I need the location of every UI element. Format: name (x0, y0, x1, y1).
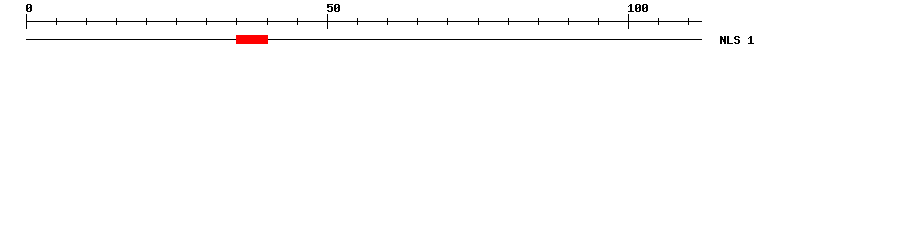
ruler minor tick at 95 (598, 18, 599, 25)
ruler minor tick at 25 (176, 18, 177, 25)
ruler minor tick at 35 (236, 18, 237, 25)
ruler minor tick at 65 (417, 18, 418, 25)
ruler minor tick at 105 (658, 18, 659, 25)
ruler major tick at 50 (327, 14, 328, 29)
ruler minor tick at 45 (297, 18, 298, 25)
ruler minor tick at 80 (508, 18, 509, 25)
sequence line (26, 39, 702, 40)
ruler minor tick at 30 (206, 18, 207, 25)
ruler label 50 (327, 4, 340, 12)
ruler minor tick at 85 (538, 18, 539, 25)
ruler minor tick at 40 (267, 18, 268, 25)
ruler minor tick at 110 (688, 18, 689, 25)
ruler minor tick at 20 (146, 18, 147, 25)
ruler minor tick at 90 (568, 18, 569, 25)
ruler minor tick at 55 (357, 18, 358, 25)
ruler major tick at 0 (26, 14, 27, 29)
ruler minor tick at 70 (447, 18, 448, 25)
ruler minor tick at 60 (387, 18, 388, 25)
ruler minor tick at 5 (56, 18, 57, 25)
ruler axis line (26, 21, 702, 22)
ruler minor tick at 10 (86, 18, 87, 25)
ruler label 100 (628, 4, 648, 12)
ruler label 0 (26, 4, 32, 12)
feature label NLS 1 (720, 36, 754, 44)
ruler minor tick at 15 (116, 18, 117, 25)
feature box NLS 1 (red) (236, 35, 268, 44)
ruler minor tick at 75 (478, 18, 479, 25)
ruler major tick at 100 (628, 14, 629, 29)
